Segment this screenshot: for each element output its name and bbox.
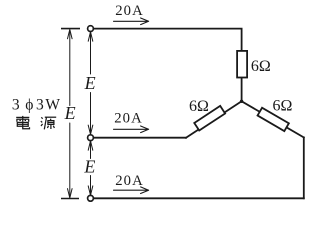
svg-text:E: E	[83, 157, 95, 177]
wire middle line	[93, 137, 186, 139]
terminal b (middle)	[88, 135, 94, 141]
node N junction dot	[240, 100, 243, 103]
svg-text:3ϕ3W: 3ϕ3W	[12, 97, 62, 114]
dimension line E lower (between b and c)	[90, 141, 92, 194]
dimension line E overall (left)	[69, 30, 71, 197]
tick top	[61, 28, 80, 30]
resistor R1 (6 ohm, vertical)	[237, 51, 247, 78]
label kanji GEN (source) drawn as strokes	[41, 117, 56, 129]
terminal a (top)	[88, 26, 94, 32]
current arrow 20A top	[114, 18, 149, 25]
svg-text:20A: 20A	[114, 111, 143, 127]
tick bottom	[61, 198, 79, 200]
wire left diagonal (node N to middle line)	[186, 101, 242, 137]
current arrow 20A middle	[114, 126, 149, 133]
wire right diagonal (node N to right corner)	[242, 101, 304, 137]
svg-text:E: E	[84, 73, 96, 93]
svg-text:6Ω: 6Ω	[189, 98, 209, 115]
svg-text:20A: 20A	[115, 3, 144, 19]
dimension line E upper (between a and b)	[90, 32, 92, 134]
wire bottom line	[93, 197, 303, 199]
svg-text:6Ω: 6Ω	[273, 98, 293, 115]
svg-text:6Ω: 6Ω	[251, 58, 271, 75]
terminal c (bottom)	[88, 195, 94, 201]
current arrow 20A bottom	[114, 187, 149, 194]
svg-text:E: E	[64, 103, 76, 123]
resistor R2 (6 ohm, left diagonal)	[194, 106, 225, 131]
wire right vertical	[303, 137, 305, 198]
resistor R3 (6 ohm, right diagonal)	[258, 108, 289, 131]
wire from resistor R1 bottom to node N	[241, 78, 243, 102]
wire top line	[93, 29, 241, 51]
label kanji DEN (electric) drawn as strokes	[16, 116, 29, 129]
svg-text:20A: 20A	[115, 173, 144, 189]
